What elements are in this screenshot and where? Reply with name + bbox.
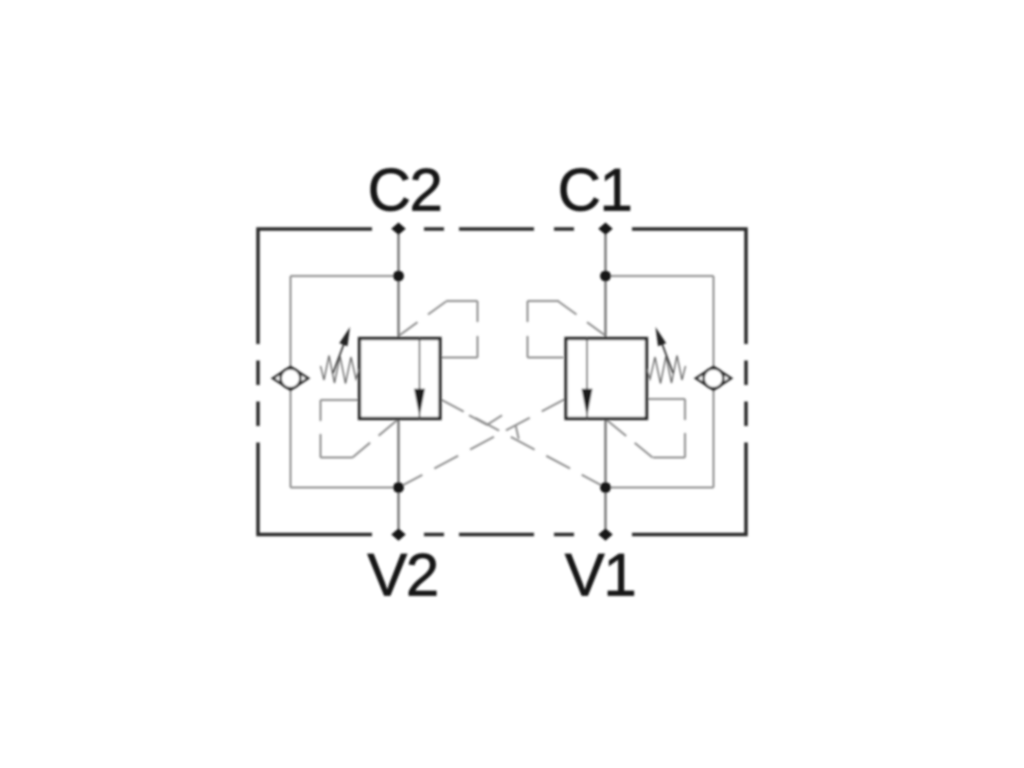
node left upper junction xyxy=(393,271,404,282)
svg-text:C2: C2 xyxy=(368,157,442,224)
pilot junction chevron xyxy=(469,415,502,425)
check valve left xyxy=(273,367,308,390)
spring adjust arrow right xyxy=(661,341,673,373)
counterbalance valve body left xyxy=(360,339,441,419)
check valve right xyxy=(696,367,731,390)
pilot loop upper right valve xyxy=(528,301,606,358)
enclosure border left xyxy=(258,361,372,535)
node V2 port xyxy=(391,528,405,540)
cross pilot line from V2 node to right valve xyxy=(399,399,567,488)
valve flow path right (line + arrow) xyxy=(586,339,588,419)
node left lower junction xyxy=(393,482,404,493)
node C2 port xyxy=(391,223,612,541)
spring left valve xyxy=(321,356,360,384)
svg-text:C1: C1 xyxy=(558,157,632,224)
pilot loop upper left valve xyxy=(400,301,478,358)
counterbalance valve body right xyxy=(566,339,647,419)
enclosure border top xyxy=(258,229,746,344)
drain loop lower left valve xyxy=(321,400,399,458)
pilot junction jog xyxy=(516,425,519,439)
cross pilot line from V1 node to left valve xyxy=(440,399,606,488)
check-valve bypass ring (inner thin rectangle) xyxy=(291,276,714,488)
svg-text:V2: V2 xyxy=(367,542,437,609)
spring right valve xyxy=(647,356,686,384)
node C1 port xyxy=(598,223,612,235)
drain loop lower right valve xyxy=(606,399,686,458)
spring adjust arrow left xyxy=(333,341,345,373)
node right upper junction xyxy=(600,271,611,282)
enclosure border right xyxy=(632,361,746,535)
node V1 port xyxy=(598,528,612,540)
svg-text:V1: V1 xyxy=(565,542,635,609)
valve flow path left (line + arrow) xyxy=(419,339,421,419)
enclosure border bottom xyxy=(424,533,574,537)
wire C2 line vertical xyxy=(399,229,606,535)
wire C1 line vertical xyxy=(604,229,606,339)
node right lower junction xyxy=(600,482,611,493)
